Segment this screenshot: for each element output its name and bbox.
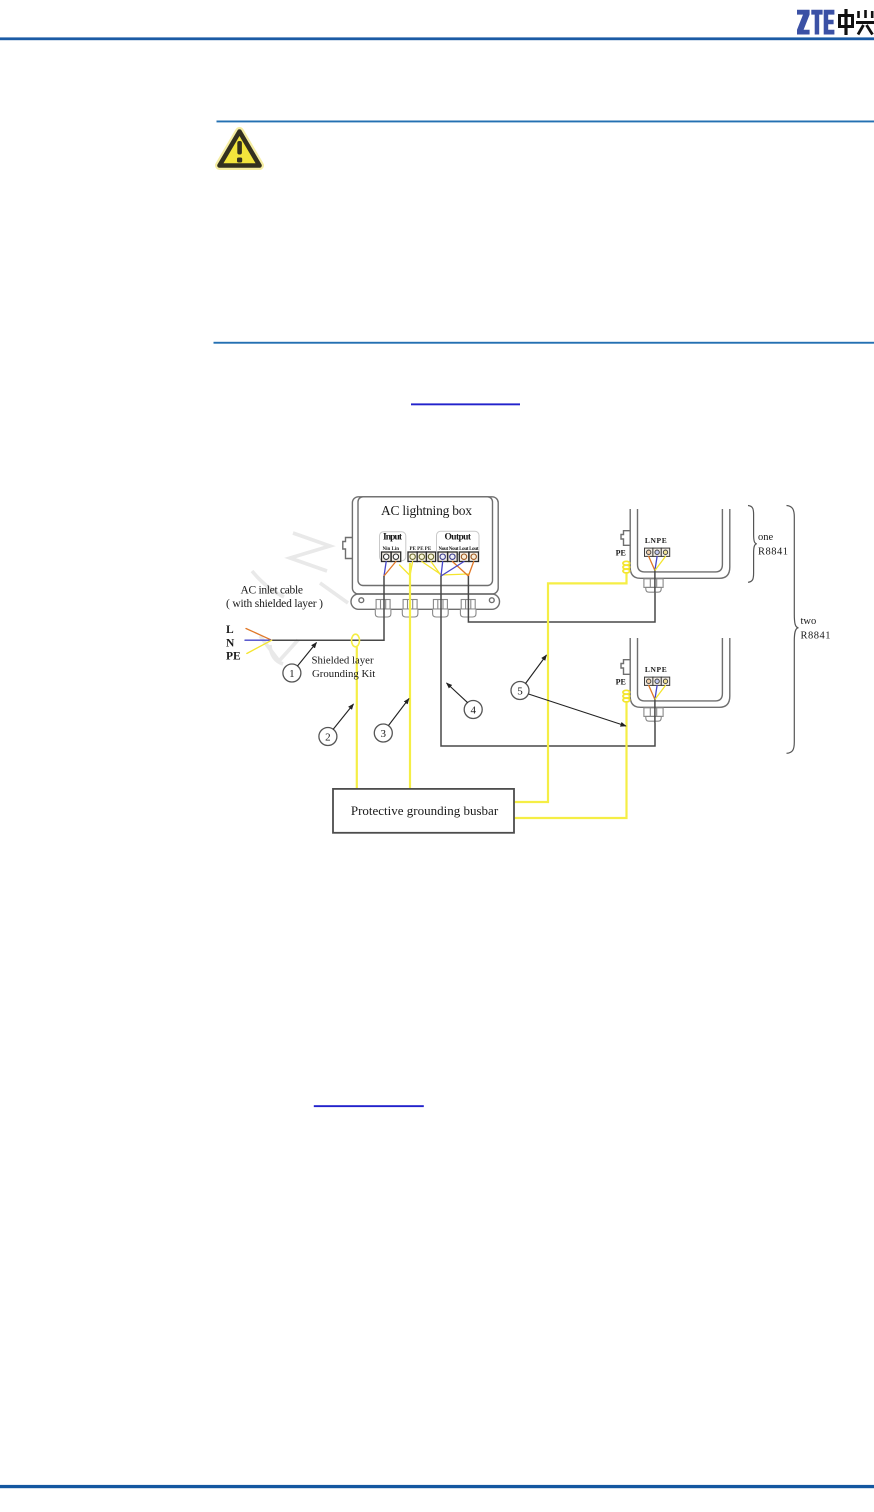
- svg-text:2: 2: [325, 732, 331, 744]
- svg-text:1: 1: [289, 668, 295, 680]
- svg-text:Protective grounding busbar: Protective grounding busbar: [351, 803, 499, 818]
- svg-text:( with shielded layer ): ( with shielded layer ): [226, 598, 323, 610]
- svg-text:R8841: R8841: [758, 547, 788, 558]
- svg-text:L: L: [226, 624, 234, 636]
- svg-text:AC lightning box: AC lightning box: [381, 503, 472, 518]
- svg-text:3: 3: [381, 728, 387, 740]
- svg-text:Output: Output: [445, 533, 472, 543]
- svg-text:Nin Lin: Nin Lin: [383, 547, 400, 552]
- svg-text:N: N: [226, 637, 235, 649]
- svg-text:4: 4: [470, 705, 476, 717]
- svg-text:PE: PE: [226, 651, 241, 663]
- svg-text:Grounding Kit: Grounding Kit: [312, 668, 375, 680]
- svg-text:Shielded layer: Shielded layer: [312, 655, 374, 667]
- svg-text:AC inlet cable: AC inlet cable: [241, 585, 304, 597]
- svg-text:one: one: [758, 532, 774, 543]
- svg-text:R8841: R8841: [801, 631, 831, 642]
- svg-text:5: 5: [517, 686, 523, 698]
- svg-text:two: two: [801, 616, 817, 627]
- svg-text:PE PE PE: PE PE PE: [410, 547, 432, 552]
- svg-text:Nout Nout Lout Lout: Nout Nout Lout Lout: [439, 547, 479, 552]
- svg-text:Input: Input: [383, 533, 403, 543]
